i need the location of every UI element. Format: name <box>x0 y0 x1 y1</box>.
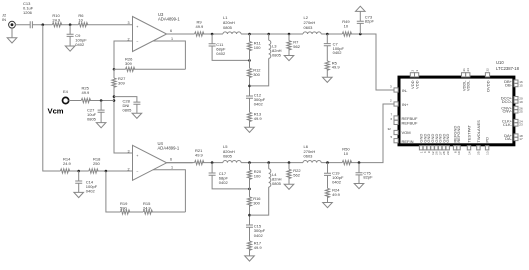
svg-text:6: 6 <box>170 29 172 33</box>
svg-text:23: 23 <box>519 123 523 127</box>
svg-text:U10: U10 <box>496 60 504 65</box>
svg-text:−: − <box>136 40 138 44</box>
svg-text:IN-: IN- <box>402 88 408 93</box>
svg-text:13: 13 <box>485 151 489 155</box>
svg-text:24: 24 <box>466 68 470 72</box>
svg-text:25: 25 <box>477 151 481 155</box>
svg-text:15: 15 <box>519 83 523 87</box>
svg-text:14: 14 <box>467 151 471 155</box>
svg-text:19: 19 <box>519 100 523 104</box>
svg-text:0402: 0402 <box>254 233 264 238</box>
svg-text:TWOLANES: TWOLANES <box>476 120 481 143</box>
svg-text:VOM: VOM <box>402 130 411 135</box>
svg-text:3: 3 <box>415 70 419 72</box>
svg-text:100: 100 <box>254 173 261 178</box>
svg-text:PD: PD <box>485 137 490 143</box>
svg-text:49.9: 49.9 <box>196 24 205 29</box>
svg-text:DB-: DB- <box>505 83 513 88</box>
svg-text:24.9: 24.9 <box>143 206 152 211</box>
svg-text:0805: 0805 <box>272 181 282 186</box>
svg-text:ADA4899-1: ADA4899-1 <box>158 145 180 150</box>
svg-text:0805: 0805 <box>223 154 233 159</box>
svg-text:1: 1 <box>171 37 173 41</box>
svg-text:TESTPAT: TESTPAT <box>467 125 472 143</box>
svg-text:300: 300 <box>253 72 260 77</box>
svg-text:309: 309 <box>118 80 125 85</box>
svg-text:7: 7 <box>391 113 393 117</box>
svg-text:1: 1 <box>171 166 173 170</box>
svg-text:+: + <box>136 25 138 29</box>
svg-text:VDDL: VDDL <box>466 80 471 91</box>
svg-text:6: 6 <box>170 157 172 161</box>
svg-text:REFGND: REFGND <box>456 126 461 143</box>
svg-text:−: − <box>136 169 138 173</box>
svg-text:300: 300 <box>253 201 260 206</box>
svg-text:0603: 0603 <box>304 25 314 30</box>
svg-text:REFBUF: REFBUF <box>402 120 419 125</box>
svg-text:309: 309 <box>125 61 132 66</box>
svg-text:2: 2 <box>127 167 129 171</box>
svg-text:0402: 0402 <box>216 51 226 56</box>
svg-text:0805: 0805 <box>123 108 133 113</box>
svg-text:E4: E4 <box>63 89 69 94</box>
svg-text:CLK-: CLK- <box>503 122 513 127</box>
svg-text:0805: 0805 <box>87 117 97 122</box>
svg-text:DA-: DA- <box>505 136 513 141</box>
svg-text:LTC2387-18: LTC2387-18 <box>496 66 520 71</box>
svg-text:0805: 0805 <box>223 25 233 30</box>
svg-text:82pF: 82pF <box>365 19 375 24</box>
svg-text:32: 32 <box>388 127 392 131</box>
svg-text:49.9: 49.9 <box>254 245 263 250</box>
svg-text:IN+: IN+ <box>402 102 409 107</box>
svg-text:0805: 0805 <box>272 53 282 58</box>
svg-text:562: 562 <box>293 173 300 178</box>
svg-text:0402: 0402 <box>86 189 96 194</box>
svg-text:10: 10 <box>344 24 349 29</box>
svg-text:100: 100 <box>254 45 261 50</box>
svg-text:OVDD: OVDD <box>485 80 490 92</box>
svg-text:1206: 1206 <box>23 10 33 15</box>
svg-text:0402: 0402 <box>254 102 264 107</box>
svg-text:10: 10 <box>78 18 83 23</box>
svg-text:10: 10 <box>344 151 349 156</box>
svg-text:+: + <box>136 154 138 158</box>
svg-text:25: 25 <box>519 110 523 114</box>
svg-text:49.9: 49.9 <box>332 192 341 197</box>
svg-text:0402: 0402 <box>333 50 343 55</box>
svg-text:IN: IN <box>2 17 6 22</box>
svg-text:0402: 0402 <box>219 180 229 185</box>
svg-text:49.9: 49.9 <box>82 90 91 95</box>
svg-text:CNV-: CNV- <box>502 109 512 114</box>
svg-text:3: 3 <box>127 21 129 25</box>
svg-text:DCO-: DCO- <box>502 99 513 104</box>
svg-text:Vcm: Vcm <box>48 106 64 115</box>
svg-text:82pF: 82pF <box>363 175 373 180</box>
svg-text:49.9: 49.9 <box>332 65 341 70</box>
svg-text:6: 6 <box>391 117 393 121</box>
svg-text:24.9: 24.9 <box>63 161 72 166</box>
svg-text:REFIN: REFIN <box>402 139 414 144</box>
svg-text:2: 2 <box>127 37 129 41</box>
svg-text:10: 10 <box>457 151 461 155</box>
svg-text:22: 22 <box>486 68 490 72</box>
svg-text:49.9: 49.9 <box>195 153 204 158</box>
svg-text:VDD: VDD <box>414 80 419 89</box>
svg-text:250: 250 <box>93 161 100 166</box>
svg-text:0402: 0402 <box>75 42 85 47</box>
svg-text:2: 2 <box>390 99 392 103</box>
svg-text:49.9: 49.9 <box>254 116 263 121</box>
svg-text:590: 590 <box>120 206 127 211</box>
svg-text:0603: 0603 <box>304 154 314 159</box>
svg-text:5: 5 <box>391 135 393 139</box>
svg-text:3: 3 <box>390 85 392 89</box>
svg-text:GND: GND <box>445 134 450 143</box>
svg-text:0402: 0402 <box>332 180 342 185</box>
svg-text:29: 29 <box>446 151 450 155</box>
svg-text:24.9: 24.9 <box>52 18 61 23</box>
svg-text:3: 3 <box>127 149 129 153</box>
svg-text:17: 17 <box>519 137 523 141</box>
svg-text:562: 562 <box>293 44 300 49</box>
svg-text:ADA4899-1: ADA4899-1 <box>158 17 180 22</box>
